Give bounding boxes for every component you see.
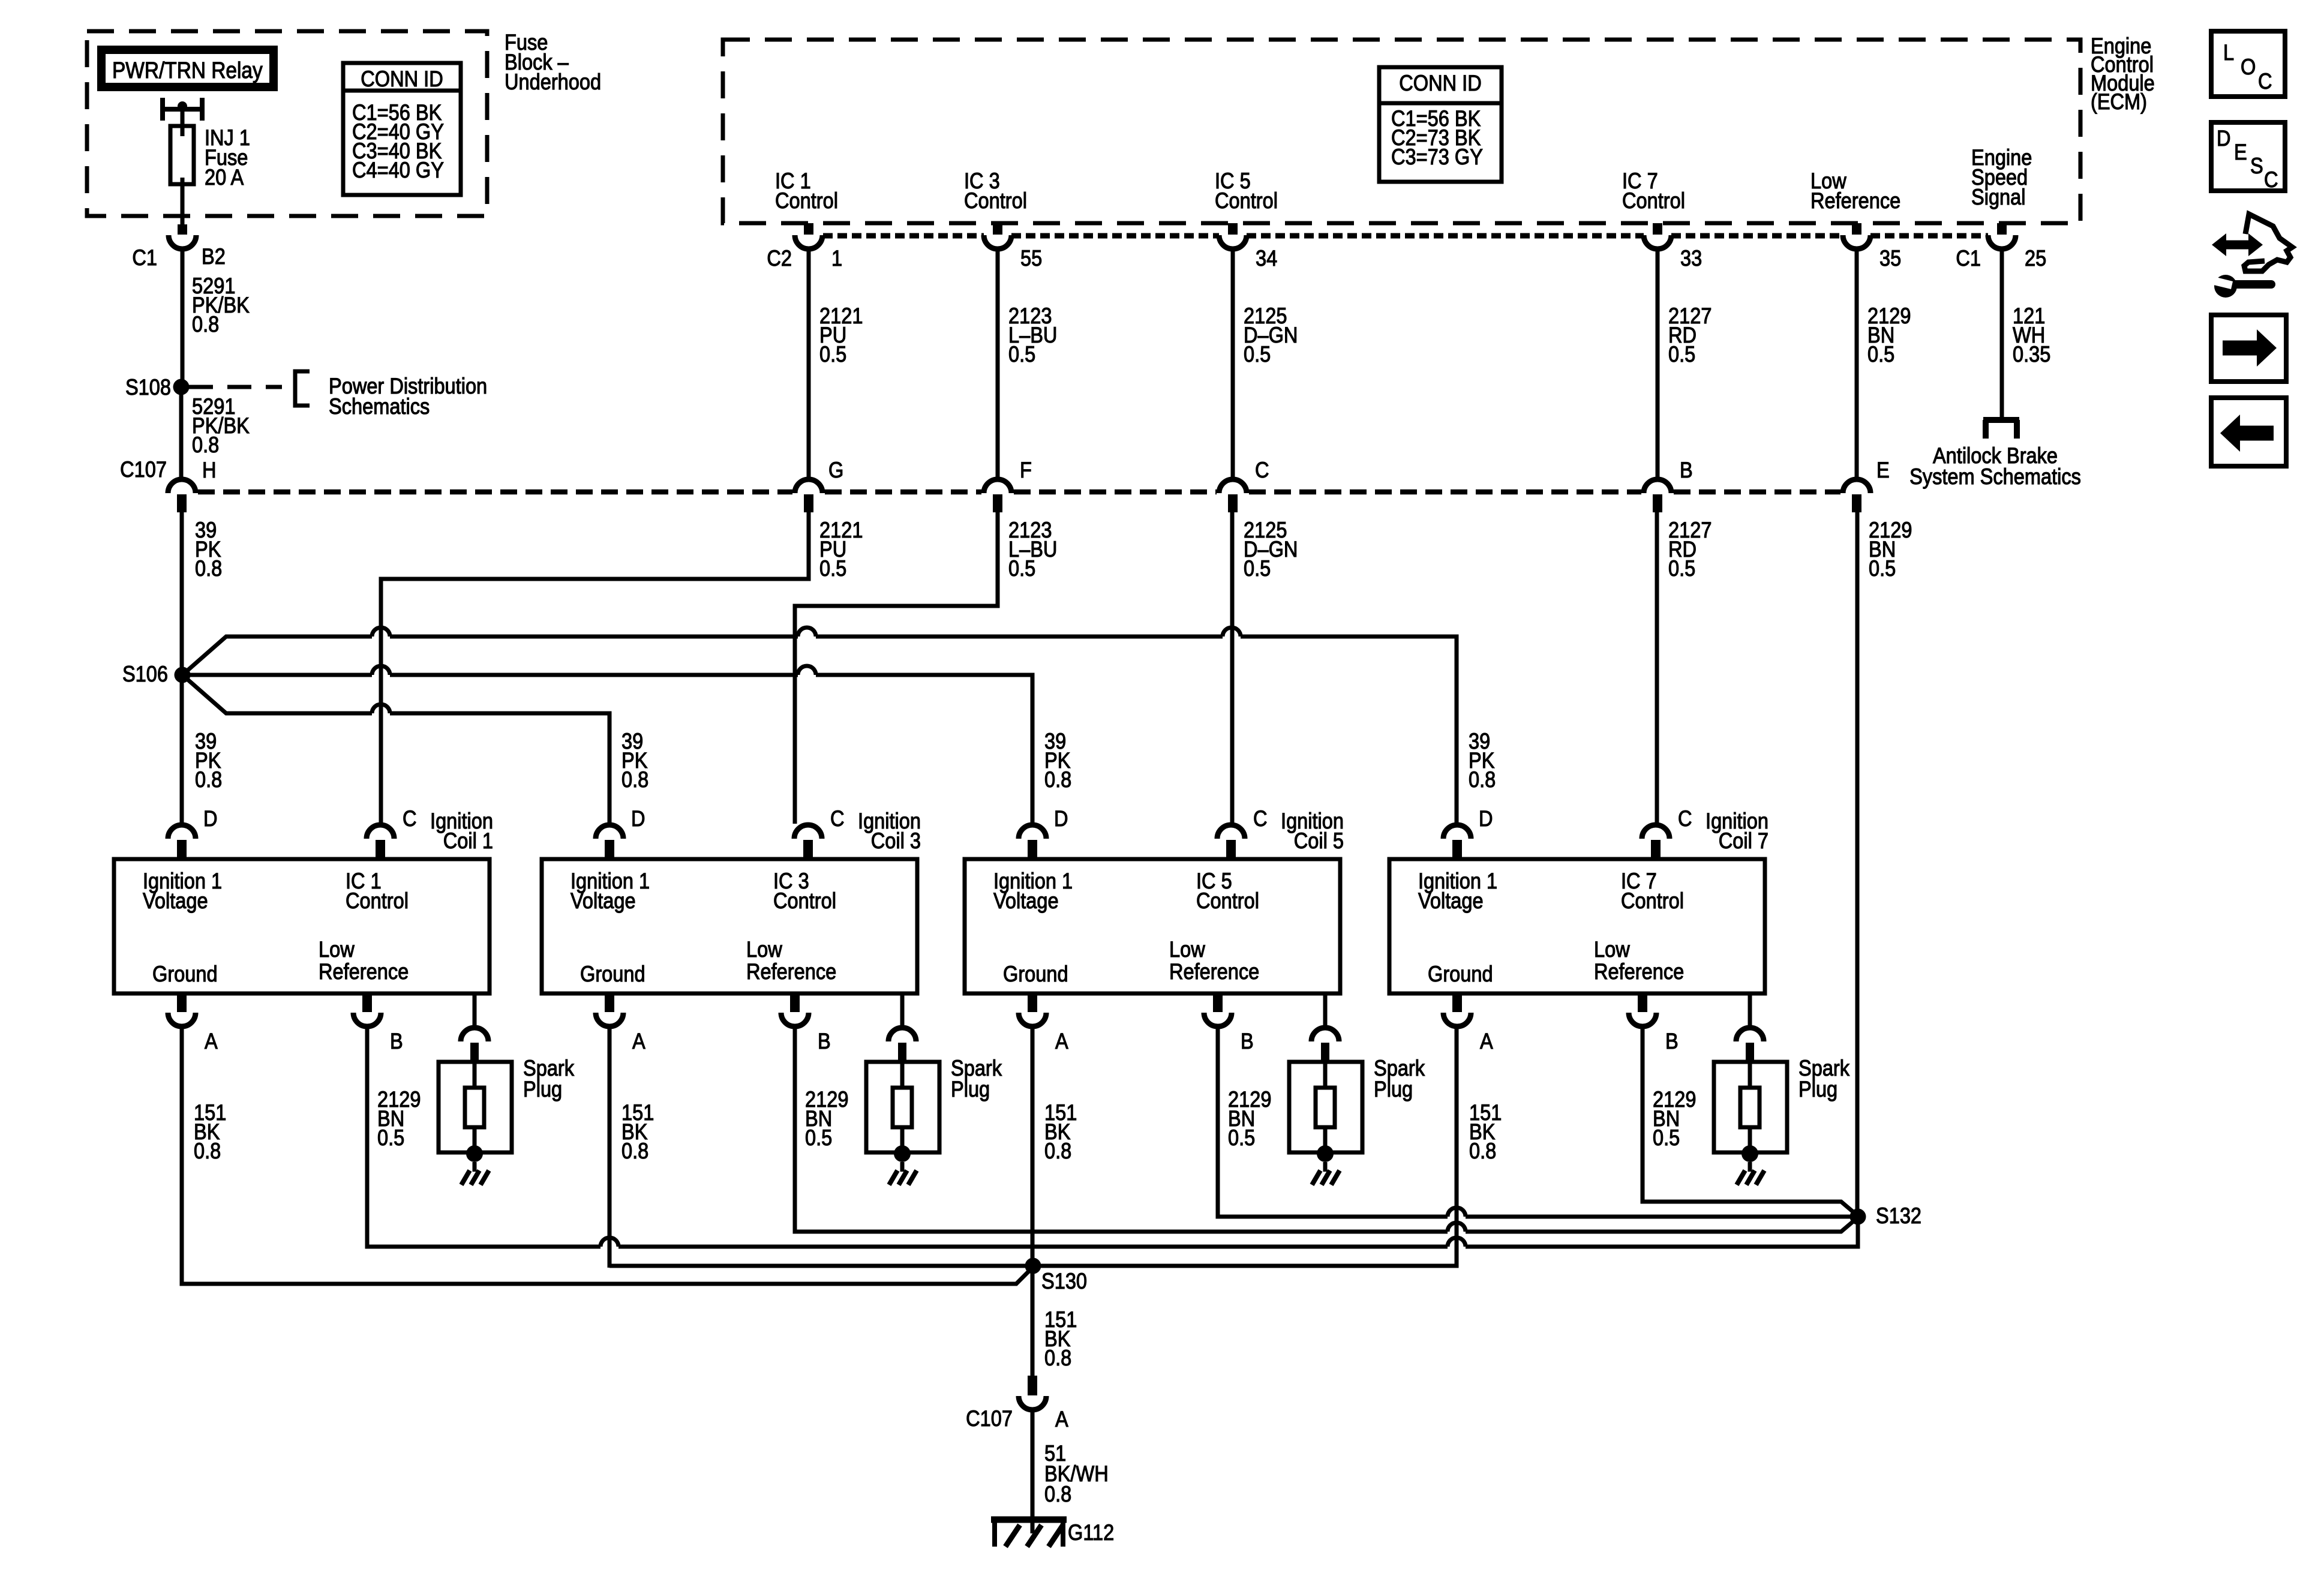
connector C1 pin B2 stub: [178, 224, 187, 235]
wire 151 BK coil 3 ground: [608, 1026, 612, 1268]
svg-text:A: A: [205, 1029, 218, 1053]
svg-text:C: C: [2258, 69, 2272, 94]
icon wiring repair (part outline): [2244, 214, 2292, 271]
svg-text:Voltage: Voltage: [143, 888, 208, 913]
svg-text:B: B: [1665, 1029, 1679, 1053]
svg-text:0.8: 0.8: [194, 1139, 221, 1163]
C107 pin H stub: [177, 494, 187, 512]
svg-text:E: E: [2234, 140, 2247, 164]
connector C107 pin A stub: [1028, 1376, 1037, 1395]
svg-text:C: C: [1678, 806, 1692, 831]
svg-text:C3=73 GY: C3=73 GY: [1391, 145, 1483, 169]
svg-text:0.35: 0.35: [2013, 342, 2050, 367]
relay contact symbol: [160, 98, 165, 121]
C107 pin G stub: [804, 494, 813, 512]
svg-text:Ground: Ground: [1428, 962, 1493, 986]
C107 connector dotted line: [198, 490, 792, 495]
ignition coil 7 pin B stub: [1638, 993, 1647, 1012]
svg-text:S132: S132: [1876, 1203, 1921, 1228]
ignition coil 7 pin C stub: [1651, 840, 1661, 859]
ignition coil 5 pin B stub: [1213, 993, 1223, 1012]
wire 151 BK S130 to C107 A: [1031, 1266, 1035, 1376]
ECM pin 25 cup: [1988, 235, 2016, 249]
svg-text:34: 34: [1256, 246, 1277, 271]
svg-text:G112: G112: [1068, 1520, 1114, 1545]
svg-text:0.8: 0.8: [195, 767, 222, 792]
wire fuse to connector C1: [181, 178, 185, 224]
svg-text:Ground: Ground: [580, 962, 645, 986]
spark plug 3 ground node: [1317, 1145, 1334, 1162]
svg-text:A: A: [1480, 1029, 1493, 1053]
relay K1 PWR/TRN Relay box: [101, 50, 274, 87]
ignition coil 5 pin C cup: [1217, 825, 1245, 839]
wire 2121 PU to ignition coil 1: [381, 512, 809, 824]
icon back arrow box: [2211, 398, 2286, 466]
ECM pin 55 stub: [993, 223, 1002, 235]
svg-text:25: 25: [2025, 246, 2046, 271]
svg-text:C2: C2: [767, 246, 792, 271]
C107 pin E stub: [1852, 494, 1861, 512]
wire 151 BK coil 1 ground: [182, 1026, 1032, 1284]
ignition coil 7 pin A stub: [1452, 993, 1462, 1012]
wire 2123 L-BU to ignition coil 3: [795, 512, 998, 824]
wire 2129 BN coil 5 low reference: [1218, 1026, 1851, 1217]
svg-text:0.8: 0.8: [1044, 1139, 1071, 1163]
svg-text:0.5: 0.5: [819, 342, 846, 367]
wire 2123 L-BU (upper): [996, 248, 1000, 477]
ignition coil 7 box: [1389, 859, 1765, 993]
spark plug 3 stub: [1321, 1043, 1329, 1062]
svg-text:B: B: [818, 1029, 831, 1053]
wire coil 3 to spark plug: [900, 993, 905, 1028]
svg-text:0.5: 0.5: [805, 1125, 832, 1150]
spark plug 2 internal wire: [900, 1062, 905, 1152]
ignition coil 7 pin D cup: [1443, 825, 1471, 839]
spark plug 4 resistor: [1740, 1088, 1759, 1127]
ignition coil 1 pin A stub: [177, 993, 187, 1012]
spark plug 3 ground symbol: [1323, 1162, 1328, 1172]
ignition coil 1 pin A cup: [168, 1013, 196, 1026]
svg-text:0.5: 0.5: [377, 1125, 404, 1150]
spark plug 2 ground symbol: [900, 1162, 905, 1172]
ignition coil 3 pin B stub: [790, 993, 800, 1012]
svg-text:0.8: 0.8: [195, 556, 222, 581]
svg-text:Coil 1: Coil 1: [443, 828, 493, 853]
spark plug 2 stub: [898, 1043, 906, 1062]
svg-text:C: C: [830, 806, 845, 831]
ignition coil 5 pin A cup: [1019, 1013, 1046, 1026]
svg-text:0.5: 0.5: [819, 556, 846, 581]
spark plug 1 resistor: [465, 1088, 484, 1127]
svg-text:0.5: 0.5: [1008, 342, 1035, 367]
svg-text:Control: Control: [775, 188, 838, 213]
svg-text:Control: Control: [1622, 188, 1685, 213]
spark plug 2 ground node: [894, 1145, 911, 1162]
svg-text:Reference: Reference: [319, 959, 409, 984]
svg-text:33: 33: [1680, 246, 1702, 271]
svg-text:Reference: Reference: [1594, 959, 1684, 984]
svg-text:S106: S106: [122, 662, 168, 686]
spark plug 4 internal wire: [1748, 1062, 1752, 1152]
svg-text:Low: Low: [1594, 937, 1631, 962]
splice S130: [1025, 1258, 1041, 1274]
svg-text:System Schematics: System Schematics: [1909, 464, 2081, 489]
icon DESC box: [2211, 122, 2285, 191]
ground G112 symbol: [991, 1517, 1067, 1523]
spark plug 1 terminal cup: [461, 1028, 488, 1041]
C107 pin F cup: [984, 479, 1011, 493]
svg-text:Control: Control: [1621, 888, 1684, 913]
svg-text:Coil 7: Coil 7: [1719, 828, 1768, 853]
svg-text:C107: C107: [120, 457, 167, 482]
svg-text:0.5: 0.5: [1869, 556, 1896, 581]
svg-text:D: D: [203, 806, 218, 831]
C107 pin F stub: [993, 494, 1002, 512]
svg-text:Voltage: Voltage: [993, 888, 1059, 913]
spark plug 1 internal wire: [473, 1062, 477, 1152]
svg-text:0.5: 0.5: [1244, 556, 1271, 581]
spark plug 3 internal wire: [1323, 1062, 1328, 1152]
ignition coil 3 pin D stub: [605, 840, 614, 859]
svg-text:L: L: [2223, 40, 2234, 65]
svg-text:Ground: Ground: [152, 962, 218, 986]
svg-text:O: O: [2241, 55, 2256, 79]
wire coil 1 to spark plug: [473, 993, 477, 1028]
svg-text:B: B: [390, 1029, 403, 1053]
wire 2129 BN from C107 E to S132: [1855, 512, 1860, 1212]
svg-text:Underhood: Underhood: [505, 70, 601, 94]
svg-text:C: C: [1253, 806, 1268, 831]
svg-text:Plug: Plug: [1374, 1077, 1413, 1101]
power distribution bracket: [295, 371, 310, 406]
svg-text:Reference: Reference: [1169, 959, 1259, 984]
spark plug 4 stub: [1746, 1043, 1754, 1062]
svg-text:C1: C1: [1956, 246, 1981, 271]
wire 2125 D-GN to ignition coil 5: [1230, 512, 1235, 824]
wire coil 5 to spark plug: [1323, 993, 1328, 1028]
svg-text:Low: Low: [1169, 937, 1206, 962]
svg-text:0.8: 0.8: [1044, 1482, 1071, 1506]
ignition coil 1 pin C cup: [367, 825, 394, 839]
svg-text:Reference: Reference: [1810, 188, 1900, 213]
ignition coil 3 pin A cup: [596, 1013, 623, 1026]
svg-text:(ECM): (ECM): [2091, 89, 2147, 114]
wire coil 7 to spark plug: [1748, 993, 1752, 1028]
wire 51 BK/WH to G112: [1031, 1409, 1035, 1520]
svg-text:0.5: 0.5: [1228, 1125, 1255, 1150]
spark plug 3 box: [1289, 1062, 1362, 1152]
C107 pin H cup: [168, 479, 196, 493]
antilock brake off-page bracket: [1983, 417, 2019, 423]
spark plug 2 box: [866, 1062, 939, 1152]
wire 151 BK ground bus row: [609, 1264, 1041, 1268]
icon wiring repair (wrench): [2235, 280, 2271, 289]
wire 5291 PK/BK segment: [181, 248, 185, 387]
ignition coil 5 pin C stub: [1226, 840, 1236, 859]
svg-text:0.8: 0.8: [621, 767, 648, 792]
ignition coil 3 pin C stub: [803, 840, 813, 859]
wire 2129 BN coil 7 low reference: [1643, 1026, 1857, 1215]
splice S108: [173, 379, 190, 395]
CONN ID table (ECM): [1379, 67, 1502, 182]
svg-text:Voltage: Voltage: [571, 888, 636, 913]
wire 2127 RD to ignition coil 7: [1655, 512, 1659, 824]
wire 39 PK to coil 7 ignition voltage: [182, 637, 1457, 824]
ignition coil 5 pin D cup: [1019, 825, 1046, 839]
svg-text:Plug: Plug: [523, 1077, 562, 1101]
svg-text:C: C: [1255, 458, 1269, 482]
svg-text:S130: S130: [1041, 1269, 1087, 1293]
engine control module (ECM) dashed enclosure: [723, 40, 2080, 223]
svg-text:0.5: 0.5: [1244, 342, 1271, 367]
ECM pin 1 cup: [795, 235, 822, 249]
wire 2125 D-GN (upper): [1231, 248, 1235, 477]
svg-text:Schematics: Schematics: [329, 394, 430, 419]
C107 pin G cup: [795, 479, 822, 493]
svg-text:A: A: [1055, 1407, 1068, 1431]
svg-text:B: B: [1241, 1029, 1254, 1053]
svg-text:0.8: 0.8: [621, 1139, 648, 1163]
svg-text:C107: C107: [966, 1406, 1013, 1431]
ignition coil 7 pin D stub: [1452, 840, 1462, 859]
svg-text:0.8: 0.8: [1469, 767, 1496, 792]
svg-text:0.8: 0.8: [1469, 1139, 1496, 1163]
wire 2127 RD (upper): [1656, 248, 1660, 477]
svg-text:0.8: 0.8: [1044, 767, 1071, 792]
icon wiring repair (double arrow): [2212, 233, 2226, 256]
svg-text:0.5: 0.5: [1668, 556, 1695, 581]
ignition coil 5 pin D stub: [1028, 840, 1037, 859]
svg-text:0.5: 0.5: [1867, 342, 1894, 367]
ignition coil 3 pin C cup: [794, 825, 822, 839]
svg-text:Control: Control: [964, 188, 1027, 213]
svg-text:B: B: [1680, 458, 1693, 482]
ignition coil 5 box: [965, 859, 1340, 993]
svg-text:Coil 3: Coil 3: [871, 828, 921, 853]
ECM pin 35 cup: [1843, 235, 1870, 249]
ECM pin 33 cup: [1644, 235, 1671, 249]
ignition coil 1 pin B cup: [353, 1013, 381, 1026]
spark plug 4 ground node: [1742, 1145, 1758, 1162]
spark plug 1 ground symbol: [473, 1162, 477, 1172]
svg-text:B2: B2: [202, 244, 226, 269]
dashed reference wire to power distribution: [189, 385, 282, 389]
wire 2129 BN coil 3 low reference: [795, 1026, 1857, 1232]
CONN ID table (fuse block): [343, 63, 461, 195]
ignition coil 1 pin B stub: [362, 993, 372, 1012]
svg-text:H: H: [202, 458, 217, 482]
svg-text:1: 1: [831, 246, 842, 271]
ignition coil 1 pin D cup: [168, 825, 196, 839]
svg-text:D: D: [2217, 126, 2231, 151]
wire 151 BK coil 7 ground: [1033, 1026, 1457, 1266]
svg-text:Plug: Plug: [1798, 1077, 1837, 1101]
svg-text:CONN ID: CONN ID: [1399, 71, 1481, 95]
svg-text:Low: Low: [319, 937, 355, 962]
svg-text:D: D: [1479, 806, 1493, 831]
wire 39 PK to coil 5 ignition voltage: [182, 675, 1032, 824]
svg-text:E: E: [1876, 458, 1890, 482]
wire 121 WH engine speed signal: [2000, 248, 2004, 420]
svg-text:D: D: [1054, 806, 1068, 831]
svg-text:F: F: [1020, 458, 1032, 482]
wire fuse internal stub: [181, 126, 185, 136]
svg-text:Voltage: Voltage: [1418, 888, 1484, 913]
svg-text:0.8: 0.8: [192, 312, 219, 337]
wire 5291 PK/BK segment 2: [179, 387, 184, 479]
svg-text:A: A: [632, 1029, 645, 1053]
connector C1 pin B2 cup: [169, 235, 196, 249]
svg-text:Low: Low: [746, 937, 783, 962]
wire 151 BK coil 5 ground: [1031, 1026, 1035, 1266]
svg-text:C: C: [403, 806, 417, 831]
ignition coil 3 pin B cup: [781, 1013, 809, 1026]
ignition coil 3 pin D cup: [596, 825, 623, 839]
svg-text:S108: S108: [125, 375, 171, 400]
spark plug 2 terminal cup: [888, 1028, 916, 1041]
svg-text:Signal: Signal: [1971, 185, 2025, 209]
svg-text:D: D: [631, 806, 645, 831]
ignition coil 7 pin C cup: [1642, 825, 1670, 839]
svg-text:Control: Control: [1196, 888, 1259, 913]
ignition coil 3 box: [542, 859, 917, 993]
wire 39 PK to coil 3 ignition voltage: [182, 675, 609, 824]
svg-text:0.8: 0.8: [1044, 1346, 1071, 1370]
svg-text:35: 35: [1879, 246, 1901, 271]
splice S132: [1850, 1209, 1866, 1225]
svg-text:Coil 5: Coil 5: [1294, 828, 1344, 853]
wire 2121 PU (upper): [807, 248, 811, 477]
ignition coil 5 pin B cup: [1204, 1013, 1232, 1026]
ignition coil 7 pin B cup: [1629, 1013, 1656, 1026]
spark plug 2 resistor: [893, 1088, 912, 1127]
C107 pin C stub: [1228, 494, 1238, 512]
ignition coil 5 pin A stub: [1028, 993, 1037, 1012]
C107 pin B stub: [1653, 494, 1662, 512]
svg-text:S: S: [2250, 154, 2263, 178]
svg-text:55: 55: [1020, 246, 1042, 271]
svg-text:Ground: Ground: [1003, 962, 1068, 986]
spark plug 3 terminal cup: [1311, 1028, 1339, 1041]
svg-text:Plug: Plug: [951, 1077, 990, 1101]
svg-text:0.5: 0.5: [1668, 342, 1695, 367]
svg-text:Control: Control: [773, 888, 836, 913]
ECM connector dotted line: [823, 233, 984, 239]
ECM pin 35 stub: [1852, 223, 1861, 235]
icon LOC box: [2211, 31, 2285, 97]
icon forward arrow box: [2211, 315, 2286, 382]
ECM pin 55 cup: [984, 235, 1011, 249]
svg-text:Control: Control: [1215, 188, 1278, 213]
wire 2129 BN coil 1 low reference: [367, 1026, 1858, 1247]
svg-text:CONN ID: CONN ID: [361, 67, 443, 91]
spark plug 4 terminal cup: [1736, 1028, 1764, 1041]
fuse F1 INJ 1 20A symbol: [170, 126, 194, 184]
ECM pin 34 stub: [1228, 223, 1238, 235]
C107 pin C cup: [1219, 479, 1247, 493]
svg-text:0.5: 0.5: [1653, 1125, 1680, 1150]
C107 pin B cup: [1644, 479, 1671, 493]
ignition coil 7 pin A cup: [1443, 1013, 1471, 1026]
svg-text:G: G: [828, 458, 843, 482]
spark plug 1 ground node: [466, 1145, 483, 1162]
ECM pin 34 cup: [1219, 235, 1247, 249]
ECM pin 1 stub: [804, 223, 813, 235]
svg-text:A: A: [1055, 1029, 1068, 1053]
spark plug 4 ground symbol: [1748, 1162, 1752, 1172]
ignition coil 1 pin D stub: [177, 840, 187, 859]
ignition coil 3 pin A stub: [605, 993, 614, 1012]
connector C107 pin A cup: [1019, 1396, 1046, 1410]
svg-text:C1: C1: [132, 245, 157, 270]
splice S106: [175, 667, 191, 683]
svg-text:0.5: 0.5: [1008, 556, 1035, 581]
svg-text:20 A: 20 A: [205, 165, 244, 190]
wire 39 PK from C107 H to S106 and coil 1: [180, 512, 184, 824]
ignition coil 1 box: [114, 859, 490, 993]
svg-text:C4=40 GY: C4=40 GY: [352, 158, 444, 182]
ECM pin 33 stub: [1653, 223, 1662, 235]
spark plug 1 stub: [470, 1043, 479, 1062]
fuse block - underhood dashed enclosure: [87, 31, 487, 216]
spark plug 3 resistor: [1316, 1088, 1335, 1127]
svg-text:C: C: [2264, 167, 2278, 192]
ignition coil 1 pin C stub: [376, 840, 385, 859]
svg-text:0.8: 0.8: [192, 433, 219, 457]
wire 2129 BN (upper): [1855, 248, 1859, 477]
svg-text:Control: Control: [346, 888, 409, 913]
C107 pin E cup: [1843, 479, 1870, 493]
spark plug 4 box: [1714, 1062, 1787, 1152]
svg-text:PWR/TRN Relay: PWR/TRN Relay: [112, 58, 263, 83]
ECM pin 25 stub: [1997, 223, 2007, 235]
spark plug 1 box: [439, 1062, 512, 1152]
svg-text:Reference: Reference: [746, 959, 836, 984]
